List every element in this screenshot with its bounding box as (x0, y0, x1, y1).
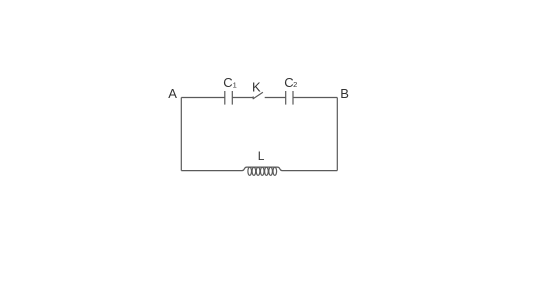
svg-text:B: B (340, 86, 349, 101)
svg-text:A: A (168, 86, 177, 101)
svg-text:K: K (252, 80, 261, 95)
svg-text:1: 1 (233, 81, 237, 90)
svg-text:L: L (258, 149, 265, 163)
svg-text:C: C (223, 75, 232, 90)
svg-text:2: 2 (293, 80, 297, 89)
